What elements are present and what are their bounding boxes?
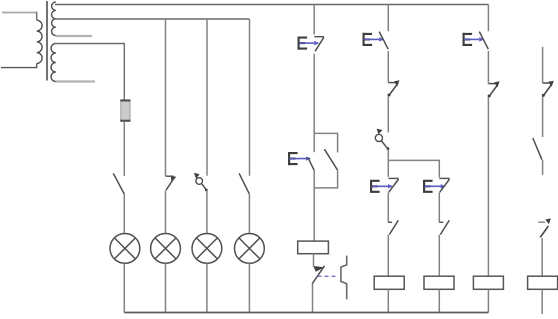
- wire S3 to lamp H3: [206, 191, 208, 234]
- fuse F1: [120, 99, 130, 121]
- transformer T1 secondary winding 2: [51, 44, 56, 82]
- wire S1 to lamp H1: [123, 194, 125, 234]
- pushbutton E5 contact (NC): [388, 178, 398, 192]
- bottom return bus wire: [124, 312, 488, 314]
- pushbutton E1 actuation arrow: [299, 41, 319, 45]
- junction bar to branch 7: [388, 160, 439, 177]
- wire branch 5 from top bus: [313, 5, 315, 35]
- pushbutton E6 label: [423, 180, 433, 193]
- switch S3 (NO with roller): [194, 173, 208, 192]
- wire branch 8 long run to coil K4: [487, 97, 489, 276]
- pushbutton E2 label: [363, 33, 373, 46]
- NO contact on right column: [533, 138, 542, 160]
- roller contact on branch 6: [375, 129, 389, 150]
- wire coil K5 down (unconnected): [541, 289, 543, 314]
- wire E6 to NO contact: [438, 193, 440, 223]
- pushbutton E2 contact (NO): [379, 32, 388, 50]
- wire coil K1 to NC contact: [313, 254, 315, 267]
- pushbutton E4 actuation arrow: [290, 156, 312, 160]
- wire branch 7: [438, 176, 440, 179]
- wire branch 3 from second bus: [206, 19, 208, 176]
- wire E1 to changeover switch: [313, 54, 315, 152]
- secondary winding 1 unused tap stub: [56, 35, 92, 37]
- wire NO contact to coil K3: [438, 235, 440, 276]
- wire S4 to lamp H4: [248, 194, 250, 234]
- changeover switch left arm: [308, 157, 314, 170]
- wire NO contact to coil: [387, 235, 389, 276]
- pushbutton E1 label: [298, 37, 308, 50]
- wire right column stub top: [542, 47, 544, 83]
- wire lamp H1 to bottom bus: [123, 263, 125, 312]
- wire stub below right NO contact: [542, 160, 544, 175]
- fuse feed wire from secondary 2: [54, 44, 124, 100]
- relay coil K3: [424, 276, 454, 289]
- pushbutton E6 contact (NC): [439, 178, 449, 192]
- contact bridge right of K1: [341, 256, 347, 300]
- pushbutton E5 label: [370, 180, 380, 193]
- relay coil K1: [298, 241, 329, 254]
- wire branch 4 from second bus corner: [249, 19, 251, 176]
- pushbutton E3 label: [463, 33, 473, 46]
- transformer T1 core: [46, 1, 48, 81]
- transformer T1 primary bottom lead: [1, 63, 37, 67]
- pushbutton E2 actuation arrow: [364, 37, 384, 41]
- NO contact on branch 6 lower: [388, 220, 398, 234]
- wire branch 6 from top bus: [387, 5, 389, 32]
- pushbutton E1 contact (NC): [314, 37, 324, 52]
- pushbutton E6 actuation arrow: [425, 184, 446, 188]
- indicator lamp H4: [235, 234, 265, 264]
- wire lamp H2 to bottom bus: [165, 263, 167, 312]
- detent contact right column lower: [538, 218, 551, 237]
- transformer T1 primary top lead: [2, 12, 37, 20]
- indicator lamp H3: [192, 234, 222, 264]
- wire branch 2 from second bus: [165, 19, 167, 176]
- wire to roller contact: [387, 97, 389, 133]
- mechanical linkage dashes: [318, 275, 339, 277]
- pushbutton E3 contact (NO): [479, 32, 488, 50]
- detent contact on branch 6: [388, 80, 400, 96]
- wire E2 to arrow contact: [387, 51, 389, 82]
- wire E3 to arrow contact: [487, 51, 489, 84]
- pushbutton E3 actuation arrow: [464, 37, 484, 41]
- transformer T1 primary winding: [37, 20, 42, 63]
- switch S4 (NO): [239, 173, 249, 194]
- wire coil K2 to bottom bus: [387, 289, 389, 312]
- detent contact on branch 8: [488, 81, 500, 97]
- wire S2 to lamp H2: [165, 191, 167, 234]
- changeover switch right arm: [324, 149, 337, 170]
- wire roller contact to junction: [387, 149, 389, 177]
- wire to coil K5: [541, 238, 543, 276]
- switch S1 (NO): [113, 173, 124, 194]
- pushbutton E5 actuation arrow: [372, 184, 394, 188]
- second supply bus wire (center tap): [56, 18, 250, 20]
- NC contact below K1: [312, 266, 324, 284]
- wire coil K4 to bottom bus: [487, 289, 489, 312]
- relay coil K4: [473, 276, 503, 289]
- wire changeover to coil K1: [313, 170, 315, 241]
- wire coil K3 to bottom bus: [438, 289, 440, 312]
- wire E5 to NO contact: [387, 193, 389, 223]
- secondary winding 2 unused tap stub: [56, 80, 95, 82]
- changeover switch top bar: [314, 133, 337, 152]
- relay coil K5 (clipped): [528, 276, 558, 289]
- wire lamp H4 to bottom bus: [248, 263, 250, 312]
- wire lamp H3 to bottom bus: [206, 263, 208, 312]
- relay coil K2: [374, 276, 404, 289]
- NO contact on branch 7: [439, 220, 449, 234]
- transformer T1 secondary winding 1: [52, 2, 56, 36]
- wire fuse to switch S1: [123, 121, 125, 176]
- switch S2 (NC with arrow): [166, 176, 177, 190]
- wire to right NO contact: [542, 97, 544, 138]
- top supply bus wire: [55, 4, 488, 6]
- changeover switch bottom bar: [314, 170, 337, 188]
- pushbutton E4 label: [288, 152, 298, 165]
- indicator lamp H2: [151, 234, 181, 264]
- wire branch 8 from top bus corner: [487, 5, 489, 32]
- wire NC contact to bottom bus: [312, 284, 314, 313]
- detent contact on right column: [542, 81, 554, 97]
- indicator lamp H1: [110, 234, 140, 264]
